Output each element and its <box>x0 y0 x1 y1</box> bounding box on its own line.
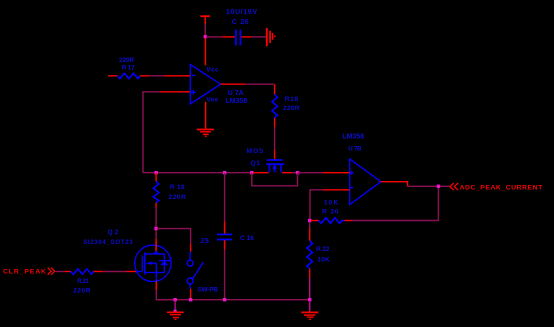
svg-text:CLR_PEAK: CLR_PEAK <box>3 269 47 276</box>
wire <box>282 172 292 174</box>
svg-text:220R: 220R <box>119 57 134 64</box>
svg-text:LM358: LM358 <box>342 134 364 141</box>
arrow source <box>146 261 152 265</box>
wire <box>274 149 276 159</box>
ground (bottom right) <box>309 301 311 312</box>
wire <box>56 271 65 273</box>
wire U7B output <box>381 182 408 187</box>
wire <box>310 190 323 220</box>
wire <box>309 269 311 278</box>
node <box>155 171 158 174</box>
wire <box>94 271 104 273</box>
wire <box>224 240 226 249</box>
wire <box>155 230 157 239</box>
svg-text:C 16: C 16 <box>240 235 254 242</box>
resistor R17 <box>117 73 140 78</box>
svg-text:10K: 10K <box>324 200 340 207</box>
svg-text:MOS: MOS <box>247 148 265 155</box>
wire Vcc pin <box>204 38 206 65</box>
wire <box>251 36 266 38</box>
wire <box>155 207 157 227</box>
svg-text:R 19: R 19 <box>170 184 185 191</box>
svg-text:R18: R18 <box>285 96 299 103</box>
node <box>296 171 299 174</box>
node <box>223 298 226 301</box>
wire bottom rail <box>156 299 309 301</box>
svg-text:U 7A: U 7A <box>228 90 244 97</box>
wire to switch <box>157 229 191 244</box>
resistor R22 <box>309 222 311 229</box>
svg-text:LM358: LM358 <box>225 98 247 105</box>
node <box>189 298 192 301</box>
resistor R19 <box>155 173 157 181</box>
svg-text:Vcc: Vcc <box>206 67 219 74</box>
wire <box>155 203 157 208</box>
ground (right-facing) <box>267 28 275 46</box>
wire <box>408 185 439 187</box>
svg-text:C 26: C 26 <box>232 19 250 26</box>
resistor R21 <box>71 269 94 274</box>
svg-text:R 20: R 20 <box>322 209 339 216</box>
ground (below U7A) <box>197 130 214 137</box>
wire <box>65 271 71 273</box>
wire <box>344 220 352 222</box>
node <box>308 219 311 222</box>
wire <box>164 75 190 77</box>
wire <box>224 250 226 300</box>
svg-text:10K: 10K <box>317 256 330 263</box>
svg-text:J5: J5 <box>200 238 210 245</box>
wire <box>222 36 235 38</box>
wire <box>155 281 157 290</box>
svg-text:220R: 220R <box>73 288 91 295</box>
wire <box>440 185 449 187</box>
op-amp U7B <box>350 159 381 205</box>
switch J5 <box>190 244 192 252</box>
wire <box>149 75 164 77</box>
ground (bottom left) <box>174 301 176 311</box>
svg-text:ADC_PEAK_CURRENT: ADC_PEAK_CURRENT <box>460 184 543 191</box>
capacitor C26 <box>236 30 241 46</box>
wire <box>143 92 160 173</box>
wire <box>206 36 222 38</box>
wire stub (inverting input net) <box>108 75 117 77</box>
svg-text:U 7B: U 7B <box>348 145 362 152</box>
port ADC_PEAK_CURRENT <box>450 183 458 190</box>
wire <box>126 271 136 273</box>
svg-text:R 22: R 22 <box>316 246 330 253</box>
wire <box>241 36 251 38</box>
wire loop under Q1 <box>252 173 298 186</box>
diode triangle <box>160 261 168 266</box>
wire <box>292 172 297 174</box>
wire <box>274 127 276 149</box>
svg-text:SW-PB: SW-PB <box>197 287 218 294</box>
wire <box>323 172 350 174</box>
node <box>250 171 253 174</box>
wire Vee pin <box>205 102 207 129</box>
wire <box>253 172 269 174</box>
wire feedback <box>352 187 438 221</box>
wire (- input) <box>323 189 350 191</box>
node <box>308 298 311 301</box>
svg-text:Q 1: Q 1 <box>250 160 260 167</box>
wire <box>156 290 175 300</box>
svg-text:R 21: R 21 <box>77 278 89 285</box>
wire <box>140 75 149 77</box>
svg-text:SI2304_SOT23: SI2304_SOT23 <box>83 239 133 246</box>
power flag VCC <box>200 16 210 24</box>
wire <box>309 278 311 300</box>
wire U7A output <box>221 83 246 85</box>
svg-text:Q 2: Q 2 <box>108 229 119 236</box>
svg-text:Vee: Vee <box>206 96 218 103</box>
wire rail <box>143 172 252 174</box>
svg-text:R 17: R 17 <box>122 64 135 71</box>
wire (+ input) <box>298 172 323 174</box>
svg-text:220R: 220R <box>168 194 186 201</box>
wire <box>103 271 126 273</box>
wire <box>245 83 274 85</box>
resistor R20 <box>311 220 319 222</box>
node <box>154 227 157 230</box>
arrow drain <box>154 251 160 254</box>
wire <box>274 84 276 94</box>
wire <box>204 24 206 37</box>
transistor Q1 (MOS) <box>266 160 284 172</box>
node <box>437 185 440 188</box>
transistor Q2 SI2304 <box>135 245 172 281</box>
svg-text:220R: 220R <box>283 105 300 112</box>
node <box>173 298 176 301</box>
resistor R18 <box>272 94 277 118</box>
wire <box>155 239 157 252</box>
wire <box>190 289 192 300</box>
wire (non-inverting input of U7A) <box>160 91 190 93</box>
svg-text:10U/16V: 10U/16V <box>226 9 258 16</box>
wire <box>274 118 276 128</box>
capacitor C16 <box>224 173 226 222</box>
op-amp U7A <box>190 65 220 105</box>
node <box>223 171 226 174</box>
node Vcc junction <box>204 35 207 38</box>
